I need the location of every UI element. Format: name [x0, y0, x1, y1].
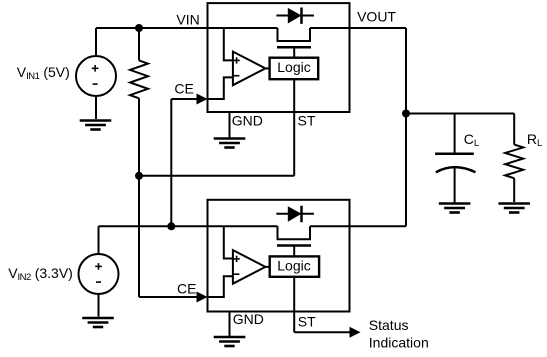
wire CE1 horizontal	[171, 98, 199, 100]
GND1 lead	[229, 112, 231, 138]
wire VOUT to IC2 output	[350, 225, 407, 227]
capacitor C_L top lead	[454, 114, 456, 154]
wire V_IN2 top lead	[98, 226, 100, 254]
resistor R_L zigzag	[505, 145, 523, 179]
voltage source V_IN2 circle	[79, 254, 119, 294]
svg-text:ST: ST	[298, 314, 316, 330]
MOSFET M2 source-drain dip	[278, 226, 311, 239]
ground under V_IN2	[82, 318, 114, 327]
ST1 pin label	[298, 112, 316, 128]
resistor R pull-up (top lead)	[138, 28, 140, 60]
MOSFET M1 gate line	[277, 46, 311, 49]
comparator U2 triangle	[233, 250, 266, 284]
diode D1 triangle	[288, 8, 302, 24]
MOSFET M2 gate line	[277, 244, 311, 247]
capacitor C_L top plate	[435, 153, 474, 156]
Status Indication text	[369, 317, 429, 350]
voltage source V_IN1 circle	[76, 56, 116, 96]
diode D2 triangle	[288, 206, 302, 222]
svg-text:Logic: Logic	[277, 59, 310, 75]
comparator U1 negative input wire from CE	[208, 77, 233, 99]
GND2 lead	[229, 312, 231, 337]
comparator U2 positive input wire	[224, 226, 233, 258]
wire ST1 vertical from Logic1	[293, 79, 295, 176]
svg-text:CE: CE	[177, 280, 196, 296]
ground under IC2 GND	[214, 337, 246, 346]
resistor R pull-up zigzag	[130, 60, 148, 98]
resistor R_L top lead	[513, 114, 515, 145]
node junction dot VIN1/R pull-up	[135, 24, 143, 32]
ground under V_IN1	[80, 121, 112, 130]
diode D1 cathode bar	[300, 8, 303, 24]
comparator U1 triangle	[233, 52, 266, 86]
node junction dot VOUT load	[402, 110, 410, 118]
IC2 box	[208, 200, 350, 312]
capacitor C_L bottom lead	[454, 167, 456, 202]
wire V_IN1 top lead	[95, 28, 97, 56]
comparator U2 negative input wire from CE	[208, 276, 233, 297]
voltage source V_IN1 label	[17, 64, 70, 82]
resistor R_L bottom lead	[513, 178, 515, 202]
arrowhead CE1	[197, 94, 208, 105]
wire VIN1 rail to IC1	[96, 27, 278, 29]
ground under R_L	[498, 204, 530, 213]
MOSFET M1 gate stub	[293, 47, 295, 58]
svg-text:GND: GND	[232, 112, 263, 128]
resistor R_L label	[527, 131, 542, 149]
wire rail IC1 right	[310, 27, 406, 29]
arrowhead CE2	[197, 292, 208, 303]
node junction dot A (ST1 / CE2)	[135, 172, 143, 180]
svg-text:Status: Status	[369, 317, 409, 333]
wire load rail	[406, 113, 514, 115]
node junction dot B (CE1 on VIN2 rail)	[167, 222, 175, 230]
diode D2 line	[276, 213, 314, 215]
wire CE2 horizontal	[139, 296, 199, 298]
svg-text:Logic: Logic	[277, 258, 310, 274]
GND1 pin label	[232, 112, 263, 128]
svg-text:VIN1 (5V): VIN1 (5V)	[17, 64, 70, 82]
wire VOUT vertical	[405, 28, 407, 226]
wire CE1 vertical to VIN2 rail	[170, 99, 172, 226]
wire rail IC2 right	[310, 225, 350, 227]
MOSFET M2 gate stub	[293, 246, 295, 257]
svg-text:GND: GND	[233, 311, 264, 327]
CE1 label	[174, 81, 193, 97]
diode D2 cathode bar	[300, 206, 303, 222]
capacitor C_L curved plate	[436, 167, 476, 172]
GND2 pin label	[233, 311, 264, 327]
svg-text:VOUT: VOUT	[357, 9, 396, 25]
voltage source V_IN2 label	[8, 265, 73, 283]
svg-text:ST: ST	[298, 112, 316, 128]
wire VIN2 rail to IC2	[99, 225, 278, 227]
wire ST2 vertical	[293, 277, 295, 333]
logic block 1	[270, 58, 319, 79]
ground under C_L	[439, 204, 471, 213]
ground under IC1 GND	[214, 139, 246, 148]
ST2 pin label	[298, 314, 316, 330]
wire U2 output	[265, 266, 269, 268]
svg-text:VIN: VIN	[176, 12, 199, 28]
VIN pin label	[176, 12, 199, 28]
logic block 2	[270, 256, 319, 276]
arrowhead ST2 status	[350, 327, 361, 338]
VOUT pin label	[357, 9, 396, 25]
wire V_IN1 bottom lead	[95, 96, 97, 119]
wire ST2 horizontal	[294, 331, 352, 333]
wire V_IN2 bottom lead	[98, 294, 100, 317]
MOSFET M1 source-drain dip	[278, 28, 311, 41]
capacitor C_L label	[464, 131, 479, 149]
CE2 label	[177, 280, 196, 296]
resistor R pull-up bottom lead down to CE2	[138, 98, 140, 297]
diode D1 line	[276, 15, 314, 17]
wire ST1 horizontal to dot A	[139, 175, 294, 177]
svg-text:CE: CE	[174, 81, 193, 97]
svg-text:Indication: Indication	[369, 334, 429, 350]
comparator U1 positive input wire	[224, 28, 233, 60]
IC1 box	[208, 3, 350, 112]
wire U1 output	[265, 67, 269, 69]
